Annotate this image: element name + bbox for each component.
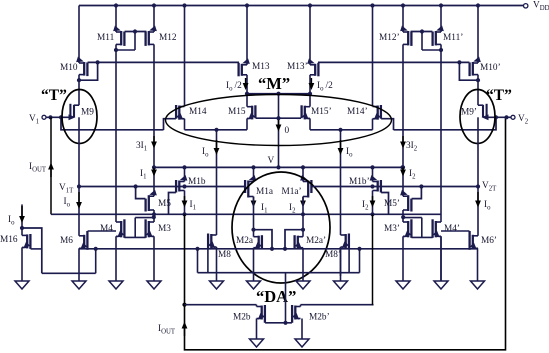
svg-text:“DA”: “DA”	[256, 287, 296, 306]
wire M5r drain	[402, 210, 404, 222]
ellipse T left	[62, 90, 97, 144]
ellipse T right	[460, 90, 495, 144]
wire V1 sense line	[50, 117, 52, 214]
svg-text:M15: M15	[228, 107, 246, 117]
svg-text:M4: M4	[100, 224, 113, 234]
wire M2a2 diode loop	[283, 230, 303, 251]
wire M14r source column	[372, 6, 374, 107]
current arrow Io/2 left	[226, 78, 249, 92]
wire V2T net	[312, 184, 478, 188]
svg-text:M2b: M2b	[233, 313, 251, 323]
caption T left	[41, 87, 67, 104]
wire M6r gate	[441, 230, 469, 232]
svg-text:M8: M8	[218, 250, 231, 260]
wire M1b drain	[182, 191, 186, 217]
input terminal V1	[29, 114, 46, 125]
junction on VDD rail	[152, 3, 156, 7]
junction on VDD rail	[401, 3, 405, 7]
current arrow 0	[276, 120, 290, 136]
wire M16 bottom run	[42, 247, 98, 274]
svg-text:M10’: M10’	[480, 63, 501, 73]
ground M2b2	[295, 319, 309, 348]
transistor M2a	[236, 230, 262, 251]
label V1T	[59, 183, 74, 194]
wire M1br gate	[381, 193, 388, 215]
svg-text:M10: M10	[60, 63, 78, 73]
svg-text:M1a: M1a	[256, 187, 273, 197]
wire M6 gate	[88, 230, 116, 232]
current arrow I1 upper	[140, 167, 157, 180]
svg-text:M2a: M2a	[236, 236, 253, 246]
transistor M9	[69, 104, 95, 120]
wire M16 diode loop	[22, 228, 42, 273]
wire Io column center-right	[340, 130, 342, 235]
svg-text:M12: M12	[159, 33, 177, 43]
svg-text:/2: /2	[326, 81, 334, 91]
wire Io column center-left	[216, 130, 218, 235]
wire M11r source column	[440, 6, 442, 33]
wire M14 drain	[184, 119, 186, 130]
wire M4r lower	[440, 236, 442, 281]
wire M15 drain	[246, 118, 248, 129]
wire M13r drain	[309, 75, 311, 94]
label V2T	[482, 181, 497, 192]
wire M10r source column	[477, 6, 479, 64]
transistor M8r	[325, 234, 349, 261]
wire M14 source column	[184, 6, 186, 107]
ellipse DA	[232, 172, 330, 283]
wire V1 to M9	[46, 115, 70, 119]
svg-text:M11: M11	[97, 33, 115, 43]
svg-text:M15’: M15’	[311, 107, 332, 117]
current arrow Io M16	[8, 206, 25, 226]
transistor M12	[146, 26, 177, 46]
wire M8 drain gnd	[216, 247, 218, 276]
junction on VDD rail	[476, 3, 480, 7]
svg-text:M1b: M1b	[188, 177, 206, 187]
junction on VDD rail	[245, 3, 249, 7]
wire M1a drain	[251, 197, 255, 232]
wire cascode row	[51, 212, 441, 216]
wire M9 gate run	[61, 117, 164, 130]
transistor M11	[97, 26, 124, 46]
svg-text:“M”: “M”	[258, 74, 290, 93]
transistor M11r	[433, 26, 464, 46]
wire M10 drain	[77, 75, 81, 106]
wire M14r-M15r source join	[310, 128, 373, 132]
svg-text:/2: /2	[235, 81, 243, 91]
wire M8 gate down	[207, 248, 209, 273]
wire M14r gate jog	[381, 119, 393, 130]
wire gate bias line right	[318, 61, 469, 63]
current arrow Io/2 right	[309, 78, 334, 92]
wire M2b gate tie	[265, 273, 292, 325]
transistor M8	[208, 234, 231, 261]
transistor M13	[239, 58, 270, 76]
wire IOUT column	[182, 117, 505, 349]
transistor M1a	[245, 167, 273, 197]
wire M15r drain	[309, 118, 311, 129]
wire M13 source column	[246, 6, 248, 65]
svg-text:V: V	[268, 156, 275, 166]
transistor M2b	[233, 305, 265, 323]
wire M12 drain column	[153, 44, 155, 196]
svg-text:M6: M6	[60, 236, 73, 246]
wire V2T column	[476, 130, 480, 236]
wire M11 gate tie	[125, 29, 147, 50]
wire M9r drain stub	[477, 117, 479, 130]
ground M2a	[247, 248, 261, 289]
wire M10r drain	[476, 75, 480, 106]
wire M15 gate tie	[256, 116, 301, 120]
wire V node column	[276, 94, 280, 170]
wire M1b gate	[169, 193, 176, 215]
svg-text:M5: M5	[158, 199, 171, 209]
current arrow I2 M1a2	[289, 197, 306, 215]
node I wire junction	[152, 165, 156, 169]
wire M5r gate L	[412, 187, 422, 199]
wire M14r drain	[372, 119, 374, 130]
wire M14-M15 source join	[185, 128, 248, 132]
transistor M4r	[433, 219, 460, 239]
junction on VDD rail	[370, 3, 374, 7]
current arrow 3I2	[400, 136, 418, 152]
wire M9 drain stub	[78, 117, 80, 130]
svg-text:M8’: M8’	[325, 250, 341, 260]
wire V1T net	[79, 184, 245, 188]
ground M16	[15, 247, 29, 289]
svg-text:M1b’: M1b’	[349, 177, 370, 187]
wire M12 source column	[153, 6, 155, 33]
wire M11r drain	[422, 44, 443, 62]
transistor M3r	[384, 219, 411, 239]
ground M8	[210, 276, 224, 289]
wire M4-M3 gate tie	[124, 215, 155, 237]
wire mirror row	[79, 247, 478, 251]
svg-text:M4’: M4’	[444, 224, 460, 234]
power terminal VDD	[524, 1, 549, 12]
wire VDD top rail	[79, 5, 524, 7]
wire 2I line	[154, 165, 405, 169]
wire M4r-M3r gate tie	[401, 215, 433, 237]
ground M4	[109, 236, 123, 289]
wire M10r diode loop	[457, 60, 478, 80]
svg-text:“T”: “T”	[486, 87, 512, 104]
transistor M6	[60, 231, 87, 252]
current arrow Io V2T	[475, 192, 491, 211]
wire M11 drain	[114, 44, 135, 62]
transistor M1br	[349, 167, 381, 192]
wire M5 drain	[152, 210, 156, 222]
transistor M9r	[461, 104, 489, 120]
caption T right	[486, 87, 512, 104]
wire M13r source column	[309, 6, 311, 65]
svg-text:M12’: M12’	[379, 33, 400, 43]
wire M2a diode loop	[254, 230, 275, 251]
transistor M1a2	[282, 167, 312, 197]
transistor M16	[0, 234, 30, 251]
input terminal V2	[511, 114, 529, 125]
wire M9r gate run	[394, 117, 497, 130]
svg-text:M6’: M6’	[481, 236, 497, 246]
transistor M14	[176, 105, 207, 122]
svg-text:M3: M3	[158, 224, 171, 234]
svg-text:M14’: M14’	[347, 107, 368, 117]
wire M1a2 drain	[301, 197, 305, 232]
ground M2a2	[296, 248, 310, 289]
svg-text:0: 0	[285, 126, 290, 136]
svg-text:M16: M16	[0, 235, 18, 245]
junction on VDD rail	[308, 3, 312, 7]
wire M11r gate tie	[411, 29, 433, 50]
wire M13 drain	[246, 75, 248, 94]
wire M16 gate link	[31, 248, 42, 250]
current arrow I2 upper	[400, 167, 416, 180]
svg-text:M2b’: M2b’	[309, 313, 330, 323]
wire M2b2 drain link	[301, 304, 374, 306]
ground M2b	[250, 319, 264, 348]
transistor M3	[146, 219, 172, 239]
node I2 wire junction	[401, 165, 405, 169]
wire M16 bias stub	[20, 204, 24, 235]
current arrow 3I1	[136, 136, 157, 152]
transistor M10r	[470, 57, 501, 77]
svg-text:M11’: M11’	[443, 33, 463, 43]
junction on VDD rail	[114, 3, 118, 7]
wire M8r drain gnd	[340, 247, 342, 276]
current arrow I2 M1br	[362, 196, 375, 211]
wire M1b2 output column	[373, 214, 374, 304]
wire M10 source column	[78, 6, 80, 64]
junction on VDD rail	[439, 3, 443, 7]
transistor M5r	[384, 190, 411, 212]
svg-text:M5’: M5’	[384, 199, 400, 209]
wire M8r gate down	[348, 248, 350, 273]
svg-text:M1a’: M1a’	[282, 187, 302, 197]
ground M6r	[471, 248, 485, 289]
junction on VDD rail	[182, 3, 186, 7]
transistor M10	[60, 57, 87, 77]
wire M12r drain column	[402, 44, 404, 196]
transistor M2b2	[292, 305, 330, 323]
transistor M1b	[176, 167, 206, 192]
wire M4 column upper	[115, 62, 117, 222]
transistor M12r	[379, 26, 411, 46]
transistor M6r	[470, 231, 497, 252]
current arrow Io V1T	[64, 192, 82, 209]
wire M11 source column	[115, 6, 117, 33]
transistor M5	[146, 190, 172, 212]
transistor M14r	[347, 105, 381, 122]
wire M10 diode loop	[79, 60, 100, 80]
transistor M4	[100, 219, 124, 239]
ground M3r	[396, 236, 410, 289]
caption DA	[256, 287, 296, 306]
node V label	[268, 156, 275, 166]
svg-text:M9: M9	[81, 108, 94, 118]
transistor M2a2	[295, 230, 327, 251]
current arrow I1 M1b	[182, 196, 196, 211]
svg-text:M14: M14	[189, 107, 207, 117]
wire M4r column	[440, 62, 442, 222]
current arrow I1 M1a	[251, 197, 268, 215]
wire M2b drain link	[185, 304, 257, 306]
ellipse M	[166, 95, 392, 146]
wire V2 to M9r	[487, 115, 511, 119]
wire gate bias line left	[88, 61, 239, 63]
svg-text:M2a’: M2a’	[306, 236, 326, 246]
current arrow Io center-right	[338, 140, 354, 158]
caption M	[258, 74, 290, 93]
svg-text:“T”: “T”	[41, 87, 67, 104]
svg-text:M9’: M9’	[461, 108, 477, 118]
ground M8r	[334, 247, 348, 289]
svg-text:M13’: M13’	[287, 62, 308, 72]
wire M14 gate jog	[164, 119, 176, 130]
ground M6	[72, 248, 86, 289]
node M top wire	[245, 92, 312, 96]
wire M1br drain	[372, 191, 374, 215]
wire M5 gate L	[136, 187, 146, 199]
current arrow IOUT left	[29, 162, 54, 177]
svg-text:M13: M13	[252, 62, 270, 72]
wire V1T column	[77, 130, 81, 236]
ground M4r	[434, 236, 448, 289]
ground M3	[147, 236, 161, 289]
transistor M13r	[287, 58, 318, 76]
current arrow Io center-left	[202, 140, 219, 158]
wire bias run low	[198, 249, 360, 273]
wire M12r source column	[402, 6, 404, 33]
transistor M15	[228, 94, 255, 122]
transistor M15r	[302, 94, 332, 122]
svg-text:M3’: M3’	[384, 224, 400, 234]
current arrow IOUT bottom	[158, 322, 187, 337]
